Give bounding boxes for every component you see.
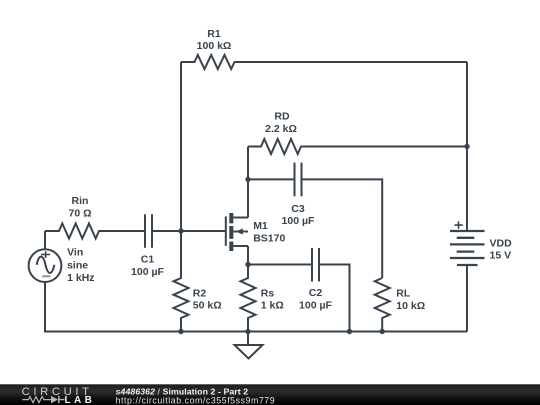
ground stub [247,332,249,346]
logo squiggle wire [22,397,51,403]
svg-text:M1: M1 [253,220,268,232]
wire right riser top [466,62,468,231]
voltage source plus sign [41,251,50,258]
svg-text:R1: R1 [207,28,221,40]
resistor Rin [45,224,145,239]
voltage source minus sign [42,275,50,277]
resistor R2 [174,231,189,332]
transistor M1 body arm [233,231,248,233]
ground triangle [235,345,263,359]
svg-text:15 V: 15 V [490,250,512,262]
svg-text:100 µF: 100 µF [299,300,332,312]
svg-text:R2: R2 [193,287,207,299]
svg-text:100 µF: 100 µF [131,266,164,278]
wire C1 to gate [152,230,226,232]
transistor M1 body arrow [236,228,243,234]
wire bottom rail [45,282,467,332]
wire Vin top riser [44,231,46,249]
wire C3 right to RL riser [302,179,383,278]
resistor RL [375,278,390,332]
capacitor C2 [312,248,319,282]
capacitor C1 [145,214,152,248]
svg-text:2.2 kΩ: 2.2 kΩ [265,123,297,135]
transistor M1 gate bar [225,216,227,245]
svg-text:http://circuitlab.com/c355f5ss: http://circuitlab.com/c355f5ss9m779 [116,395,276,405]
svg-text:RD: RD [274,110,290,122]
resistor Rs [241,265,256,332]
svg-text:Vin: Vin [67,247,83,259]
svg-text:VDD: VDD [490,238,513,250]
node junction RL bottom [380,329,385,334]
footer bar [0,384,540,405]
node junction RD-R1 right [464,144,469,149]
voltage source Vin circle [29,249,62,282]
wire drain riser [247,147,249,218]
resistor R1 [181,55,467,69]
svg-text:70 Ω: 70 Ω [68,208,91,220]
svg-text:Rin: Rin [72,195,89,207]
svg-text:1 kHz: 1 kHz [67,272,94,284]
svg-text:1 kΩ: 1 kΩ [261,300,284,312]
svg-text:sine: sine [67,259,88,271]
transistor M1 source arm [233,245,248,247]
voltage source sine wave [37,257,55,273]
wire C2 right riser [319,265,350,332]
node junction Rs bottom [245,329,250,334]
svg-text:100 kΩ: 100 kΩ [197,40,232,52]
node junction R2 bottom [178,329,183,334]
svg-text:50 kΩ: 50 kΩ [193,300,222,312]
resistor RD [248,139,467,154]
transistor M1 drain arm [233,217,248,219]
wire C2 left lead [248,264,312,266]
node junction drain-C3 [245,177,250,182]
transistor M1 channel segments [229,213,233,251]
capacitor C3 [295,163,302,197]
node junction C1-R1-R2-gate [178,228,183,233]
svg-text:BS170: BS170 [253,233,285,245]
node junction source-Rs-C2 [245,262,250,267]
svg-text:RL: RL [396,287,411,299]
battery VDD plates [450,231,485,265]
svg-text:C1: C1 [141,254,155,266]
svg-text:LAB: LAB [65,395,96,405]
wire source riser [247,246,249,265]
wire C3 left lead [248,178,295,180]
wire R1 left riser [180,62,182,231]
svg-text:Rs: Rs [261,287,275,299]
svg-text:10 kΩ: 10 kΩ [396,300,425,312]
battery plus sign [455,221,463,229]
svg-text:C3: C3 [291,203,305,215]
logo diode [51,396,58,403]
node junction C2 drop [347,329,352,334]
svg-text:100 µF: 100 µF [282,215,315,227]
svg-text:C2: C2 [309,287,323,299]
wire battery bottom riser [466,265,468,332]
logo diode bar [59,396,65,403]
